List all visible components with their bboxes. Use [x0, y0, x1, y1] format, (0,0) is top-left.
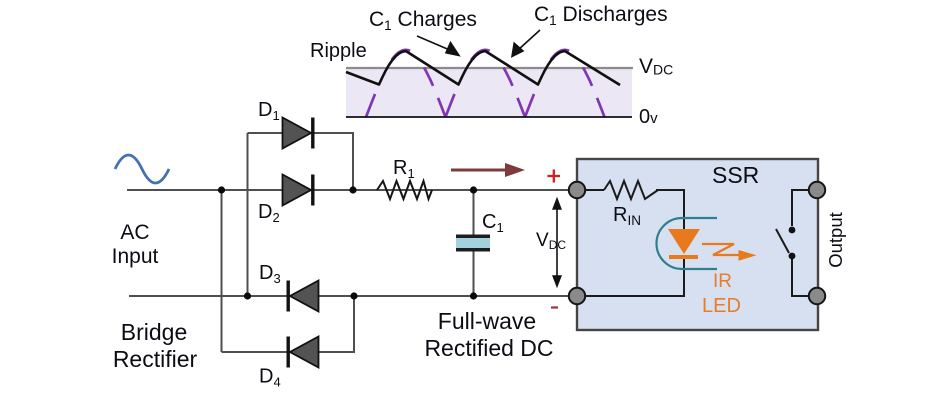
svg-text:Rectified DC: Rectified DC: [424, 335, 553, 361]
svg-text:C1 Charges: C1 Charges: [369, 8, 477, 33]
svg-text:Bridge: Bridge: [121, 319, 187, 345]
svg-text:Full-wave: Full-wave: [438, 308, 536, 334]
svg-text:VDC: VDC: [639, 55, 673, 78]
svg-text:IR: IR: [713, 271, 732, 292]
svg-text:D1: D1: [258, 99, 280, 123]
svg-text:0v: 0v: [639, 106, 658, 128]
svg-text:SSR: SSR: [712, 162, 759, 188]
svg-text:VDC: VDC: [536, 230, 566, 252]
svg-text:AC: AC: [120, 221, 149, 244]
svg-text:Input: Input: [112, 245, 159, 268]
svg-text:C1: C1: [482, 211, 504, 235]
svg-text:D4: D4: [259, 366, 281, 390]
svg-text:Ripple: Ripple: [310, 40, 367, 62]
svg-text:Rectifier: Rectifier: [113, 346, 198, 372]
svg-text:D2: D2: [258, 201, 280, 225]
svg-text:D3: D3: [259, 262, 281, 286]
svg-text:R1: R1: [393, 157, 415, 181]
svg-text:C1 Discharges: C1 Discharges: [534, 3, 668, 28]
svg-text:LED: LED: [702, 295, 741, 317]
svg-text:Output: Output: [825, 212, 846, 268]
